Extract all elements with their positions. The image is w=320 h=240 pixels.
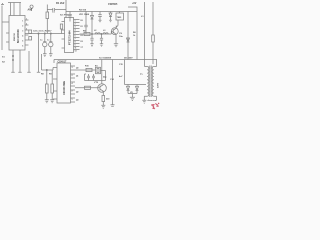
svg-text:MC145026: MC145026 bbox=[16, 29, 20, 43]
crystal B1 bbox=[96, 67, 101, 73]
filter wire mid bbox=[80, 31, 112, 34]
resistor R3 bbox=[60, 24, 62, 29]
capacitor C3 electrolytic bbox=[98, 12, 102, 22]
wire mid vertical bbox=[111, 60, 115, 107]
svg-text:PT2272-M4: PT2272-M4 bbox=[68, 30, 72, 45]
regulator U4 box bbox=[116, 13, 124, 20]
inductor L2 bbox=[103, 33, 108, 34]
switch S2 stub bbox=[18, 50, 21, 72]
svg-text:CD4017BE: CD4017BE bbox=[62, 81, 66, 95]
svg-text:D2: D2 bbox=[81, 35, 83, 37]
transformer T1 secondary bbox=[152, 67, 154, 97]
transistor VT1 bbox=[116, 20, 118, 27]
svg-text:2: 2 bbox=[22, 25, 23, 27]
pins U1 right bbox=[25, 20, 29, 45]
svg-text:R2 100: R2 100 bbox=[79, 9, 87, 11]
svg-text:C4 1u C5 1u R3 4k7: C4 1u C5 1u R3 4k7 bbox=[33, 30, 52, 33]
svg-text:5: 5 bbox=[75, 32, 76, 34]
transistor VT2 bbox=[98, 84, 107, 93]
wire collector bbox=[101, 60, 103, 84]
svg-text:6: 6 bbox=[75, 35, 76, 37]
wire diode feed bbox=[125, 60, 147, 85]
wire base bbox=[75, 87, 98, 89]
svg-text:Q3: Q3 bbox=[76, 100, 78, 102]
svg-text:2: 2 bbox=[75, 23, 76, 25]
svg-text:IC1 PT2272: IC1 PT2272 bbox=[60, 14, 72, 16]
svg-text:220V: 220V bbox=[158, 82, 160, 88]
capacitor C8 bbox=[29, 37, 32, 41]
svg-text:6: 6 bbox=[22, 45, 23, 47]
zener VD3 bbox=[127, 38, 130, 42]
ground G7 bbox=[142, 100, 146, 103]
svg-text:IC3 CD4069: IC3 CD4069 bbox=[99, 57, 112, 60]
transformer T1 core bbox=[150, 66, 151, 98]
svg-text:Q1: Q1 bbox=[76, 76, 78, 78]
svg-text:CW7805: CW7805 bbox=[108, 3, 118, 6]
capacitor C1 series bbox=[53, 8, 55, 11]
svg-text:7: 7 bbox=[72, 91, 73, 93]
capacitor C13 bbox=[92, 74, 95, 81]
inductor L1 bbox=[95, 33, 100, 34]
svg-text:1: 1 bbox=[75, 20, 76, 22]
diode VD1 bbox=[91, 12, 94, 35]
wire long drop S-line bbox=[37, 34, 40, 73]
pins U1 left bbox=[2, 22, 9, 42]
capacitor C12 bbox=[87, 74, 90, 81]
IC U1 box bbox=[9, 16, 25, 51]
svg-text:Q0: Q0 bbox=[76, 68, 78, 70]
wire bus U1-U2 bbox=[25, 33, 65, 35]
wire U1 top pin 2 bbox=[13, 3, 15, 16]
wire U1 top pin 3 bbox=[19, 3, 21, 16]
svg-text:3: 3 bbox=[26, 29, 27, 31]
wire U1 top pin 1 bbox=[10, 3, 12, 16]
ground G6 bbox=[130, 97, 135, 100]
svg-text:D0: D0 bbox=[81, 20, 83, 22]
resistor R11 bbox=[85, 86, 91, 89]
diode VD5 bbox=[136, 85, 139, 94]
svg-text:2: 2 bbox=[26, 24, 27, 26]
diode VD2 bbox=[109, 12, 112, 22]
IC U3 box bbox=[57, 63, 71, 103]
svg-text:ANT: ANT bbox=[28, 9, 33, 12]
switch S3 stub bbox=[27, 51, 30, 72]
IC U2 box bbox=[65, 18, 74, 53]
svg-text:7: 7 bbox=[75, 38, 76, 40]
svg-text:13: 13 bbox=[75, 50, 77, 52]
antenna A1 bbox=[30, 5, 33, 11]
svg-text:5: 5 bbox=[22, 40, 23, 42]
wire top feed bbox=[47, 0, 66, 18]
capacitor C1 trimmer bbox=[69, 12, 72, 22]
svg-text:8: 8 bbox=[75, 41, 76, 43]
svg-text:4: 4 bbox=[75, 28, 76, 31]
pins U2 right bbox=[74, 20, 80, 50]
wire right rail B bbox=[152, 2, 154, 35]
pins U1 bottom bbox=[11, 50, 14, 72]
svg-text:RX3310: RX3310 bbox=[14, 32, 16, 41]
wire right rail A bbox=[144, 2, 146, 67]
svg-text:4: 4 bbox=[72, 82, 73, 85]
capacitor C7 bbox=[29, 30, 32, 34]
svg-text:10u: 10u bbox=[119, 36, 123, 38]
resistor R8 bbox=[46, 70, 48, 84]
capacitor C11 bbox=[101, 33, 102, 34]
svg-text:CD4017: CD4017 bbox=[58, 60, 67, 63]
svg-text:11: 11 bbox=[75, 47, 77, 49]
wire top header horizontal bbox=[8, 2, 21, 4]
svg-text:Q2: Q2 bbox=[76, 92, 78, 94]
svg-text:ZD 220V: ZD 220V bbox=[124, 58, 133, 60]
pins U2 left bbox=[62, 22, 65, 49]
resistor R13 bbox=[152, 35, 155, 42]
svg-text:4: 4 bbox=[22, 34, 23, 37]
node bus junction 1 bbox=[38, 33, 39, 34]
wire drop to IC3 bbox=[53, 60, 55, 64]
resistor R5 bbox=[84, 32, 90, 35]
svg-text:R1 2k2: R1 2k2 bbox=[56, 1, 65, 5]
capacitor C5 electrolytic bbox=[50, 33, 51, 34]
oscillator wire bbox=[75, 69, 96, 71]
svg-text:2: 2 bbox=[72, 75, 73, 77]
capacitor C2 bbox=[84, 12, 87, 35]
pins U3 right bbox=[71, 66, 76, 102]
svg-text:1: 1 bbox=[26, 19, 27, 21]
wire zener branch bbox=[127, 12, 129, 60]
resistor R9 bbox=[51, 70, 53, 84]
svg-text:1: 1 bbox=[72, 99, 73, 101]
wire lower section top line bbox=[54, 59, 157, 61]
logo watermark red bbox=[151, 103, 159, 110]
wire +V branch right bbox=[128, 7, 137, 60]
wire diode bottoms bbox=[128, 94, 137, 98]
diode VD4 bbox=[127, 85, 130, 94]
wire R8 R9 feed bbox=[42, 54, 54, 70]
node left input bbox=[1, 6, 3, 51]
svg-text:D1: D1 bbox=[81, 26, 83, 28]
svg-text:1: 1 bbox=[22, 20, 23, 22]
svg-text:+6V: +6V bbox=[132, 2, 137, 5]
transformer T1 primary bbox=[147, 67, 149, 97]
capacitor C10 bbox=[91, 33, 92, 34]
svg-text:3: 3 bbox=[75, 26, 76, 28]
resistor R12 emitter bbox=[102, 91, 104, 95]
svg-text:3: 3 bbox=[22, 30, 23, 32]
svg-text:9: 9 bbox=[75, 44, 76, 46]
svg-text:VD1 1N60: VD1 1N60 bbox=[79, 14, 90, 16]
ground G5 bbox=[114, 44, 118, 47]
wire top-left entry tick bbox=[1, 3, 4, 5]
svg-text:3: 3 bbox=[72, 67, 73, 69]
capacitor C4 electrolytic bbox=[44, 33, 45, 34]
text labels bbox=[2, 1, 160, 101]
svg-text:dzsc.com: dzsc.com bbox=[148, 100, 157, 102]
resistor R1 bbox=[46, 5, 48, 13]
wire power rail bbox=[66, 11, 137, 13]
resistor R10 bbox=[86, 68, 92, 71]
wire crystal out bbox=[85, 71, 106, 81]
pins U3 left bbox=[53, 68, 57, 100]
svg-text:D3: D3 bbox=[81, 41, 83, 43]
